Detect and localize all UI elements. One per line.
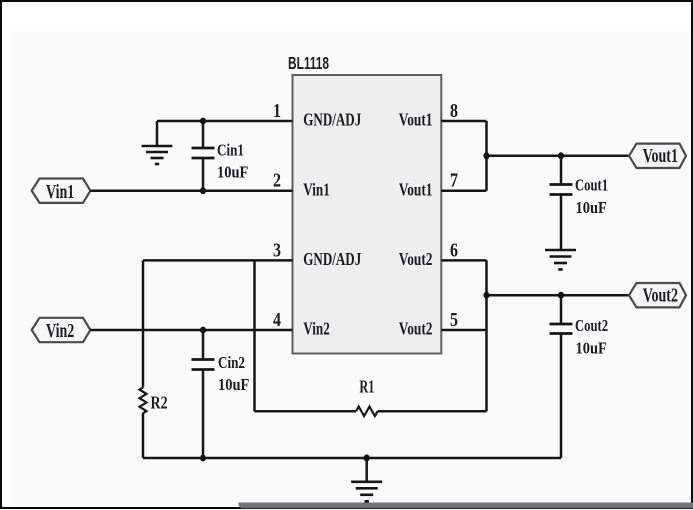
svg-text:5: 5 [450, 308, 458, 330]
svg-text:10uF: 10uF [576, 199, 607, 217]
wire R1 left horizontal [255, 410, 357, 413]
wire right bus vertical pin6-R1 [485, 260, 488, 411]
svg-text:8: 8 [450, 99, 458, 121]
svg-text:Vout2: Vout2 [643, 284, 678, 306]
wire pin5 stub [441, 329, 486, 332]
junction dot pin4/Cin2 [200, 327, 206, 334]
capacitor Cin2 bottom stem [202, 371, 205, 459]
svg-text:6: 6 [450, 239, 458, 261]
capacitor Cout1 bottom stem [560, 196, 563, 251]
junction dot rail/Cin2 [200, 455, 206, 462]
svg-text:10uF: 10uF [576, 339, 607, 357]
net tag Vout1 [629, 144, 686, 168]
wire Vout2 branch horizontal [487, 294, 630, 297]
svg-text:Vin2: Vin2 [303, 320, 330, 339]
capacitor Cout1 top stem [560, 156, 563, 184]
junction dot bus/Vout1 [483, 152, 489, 159]
wire pin6 stub [441, 259, 486, 262]
junction dot rail/ground [364, 455, 370, 462]
svg-text:Cout1: Cout1 [575, 177, 608, 195]
junction dot pin1/Cin1 [200, 118, 206, 125]
ground G3 [351, 482, 382, 502]
svg-text:7: 7 [450, 169, 458, 191]
capacitor Cout2 bottom stem [560, 335, 563, 459]
wire pin7 stub [441, 189, 486, 192]
capacitor Cin1 bottom stem [202, 159, 205, 191]
svg-text:R1: R1 [359, 379, 374, 398]
svg-text:Vout1: Vout1 [399, 111, 433, 130]
capacitor Cout2 top stem [560, 295, 563, 323]
svg-text:Cin2: Cin2 [218, 353, 245, 372]
net tag Vin1 [32, 179, 91, 203]
svg-text:R2: R2 [151, 394, 168, 413]
capacitor Cout1 plates [550, 185, 573, 195]
scrollbar [239, 503, 693, 509]
svg-text:Vin2: Vin2 [46, 320, 74, 342]
svg-text:Cout2: Cout2 [575, 317, 608, 335]
svg-text:BL1118: BL1118 [288, 54, 329, 74]
wire left vertical lower (R2 to rail) [142, 413, 145, 458]
svg-text:Vout2: Vout2 [399, 320, 433, 339]
ground G1 stem [156, 121, 159, 146]
resistor R2 [140, 388, 147, 414]
junction dot pin2/Cin1 [200, 187, 206, 194]
ground G1 [142, 146, 173, 164]
capacitor Cin1 top stem [202, 121, 205, 147]
svg-text:1: 1 [273, 99, 281, 121]
wire pin4 net Vin2 [90, 329, 292, 332]
svg-text:Cin1: Cin1 [217, 141, 244, 160]
svg-text:GND/ADJ: GND/ADJ [303, 111, 361, 130]
svg-text:Vout1: Vout1 [643, 145, 678, 167]
junction dot Cout1/Vout1 [558, 152, 564, 159]
svg-text:3: 3 [273, 239, 281, 261]
svg-text:2: 2 [273, 169, 281, 191]
wire ground rail [143, 457, 561, 460]
svg-text:GND/ADJ: GND/ADJ [303, 250, 361, 269]
wire pin1 net horizontal [157, 120, 293, 123]
svg-text:Vout2: Vout2 [399, 250, 433, 269]
wire left vertical upper (pin3 to R2) [142, 260, 145, 387]
wire R1 right horizontal [378, 410, 487, 413]
svg-text:10uF: 10uF [217, 163, 248, 181]
svg-text:Vin1: Vin1 [46, 180, 74, 202]
net tag Vout2 [629, 283, 686, 307]
capacitor Cout2 plates [550, 324, 573, 334]
ground G3 stem [365, 458, 368, 482]
junction dot bus/Vout2 [483, 292, 489, 299]
capacitor Cin1 plates [192, 148, 215, 158]
wire right bus vertical pin8-pin7 [485, 121, 488, 191]
junction dot Cout2/Vout2 [558, 292, 564, 299]
IC U1 BL1118 body [293, 75, 442, 354]
wire Vout1 branch horizontal [487, 155, 630, 158]
resistor R1 [356, 407, 378, 416]
svg-text:10uF: 10uF [218, 376, 249, 394]
svg-text:Vin1: Vin1 [303, 181, 329, 200]
wire pin3 net horizontal [143, 259, 293, 262]
wire R1 left vertical from pin3 net [253, 260, 256, 411]
capacitor Cin2 plates [192, 360, 215, 370]
wire pin2 net Vin1 [90, 189, 292, 192]
capacitor Cin2 top stem [202, 330, 205, 359]
ground G2 [545, 250, 576, 270]
svg-text:4: 4 [273, 308, 281, 330]
svg-text:Vout1: Vout1 [399, 181, 433, 200]
net tag Vin2 [32, 318, 91, 342]
wire pin8 stub [441, 120, 486, 123]
